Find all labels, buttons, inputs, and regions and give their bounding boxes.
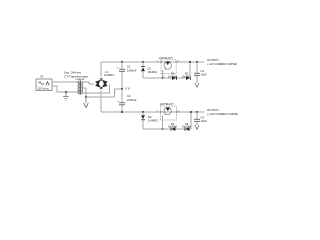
svg-text:CT-Transformator: CT-Transformator <box>64 74 88 78</box>
wire AC2 riser <box>108 84 110 93</box>
svg-text:1N4001: 1N4001 <box>148 70 158 74</box>
svg-text:1N4148: 1N4148 <box>182 126 191 129</box>
node D5 top <box>142 61 144 63</box>
svg-text:1N4148: 1N4148 <box>168 126 177 129</box>
ground (center tap) <box>85 96 87 98</box>
svg-text:10uF: 10uF <box>201 119 208 123</box>
svg-text:120 Vrms: 120 Vrms <box>37 86 49 90</box>
node D8 top <box>142 111 144 113</box>
wire positive rail <box>101 61 205 63</box>
svg-text:+: + <box>117 66 119 70</box>
ground arrow (C4) <box>195 125 199 130</box>
node 0V <box>121 88 123 90</box>
svg-text:1N4003: 1N4003 <box>104 73 114 77</box>
wire diode string top <box>143 77 190 79</box>
wire diode string riser <box>189 62 191 78</box>
wire regulator ground pin <box>161 77 163 79</box>
svg-text:10uF: 10uF <box>201 73 208 77</box>
capacitor C1 <box>121 62 123 89</box>
wire 0V <box>86 89 122 97</box>
svg-text:LM7912CT: LM7912CT <box>160 102 174 106</box>
capacitor C3 <box>196 62 198 83</box>
svg-text:0 V: 0 V <box>126 87 130 91</box>
bridge rectifier D1-D4 <box>95 78 108 89</box>
svg-text:1N4003: 1N4003 <box>148 119 158 123</box>
svg-text:+ 12V CURRENT-LIMITED: + 12V CURRENT-LIMITED <box>207 63 237 66</box>
ground arrow (C3) <box>195 83 199 88</box>
svg-text:(-) 12V CURRENT-LIMITED: (-) 12V CURRENT-LIMITED <box>207 113 238 116</box>
wire plug to transformer primary top <box>52 81 79 83</box>
diode D9 <box>171 127 175 131</box>
svg-text:+: + <box>117 99 119 103</box>
capacitor C4 <box>196 112 198 125</box>
node C2 bottom <box>121 111 123 113</box>
svg-text:LM7812CT: LM7812CT <box>159 56 173 60</box>
wire regulator U2 ground pin <box>161 128 163 130</box>
svg-text:OUTPUT: OUTPUT <box>207 58 219 62</box>
svg-text:1000uF: 1000uF <box>127 69 137 73</box>
wall plug V1 <box>36 79 52 91</box>
diode D7 <box>186 76 190 80</box>
svg-text:OUTPUT: OUTPUT <box>207 108 219 112</box>
wire diode string riser bottom <box>190 112 192 129</box>
capacitor C2 <box>121 89 123 112</box>
diode D6 <box>172 76 176 80</box>
svg-text:1000uF: 1000uF <box>127 98 137 102</box>
diode D8 <box>142 112 144 129</box>
wire DC minus riser <box>100 90 102 112</box>
ground (primary) <box>63 92 69 101</box>
svg-text:V1: V1 <box>40 75 44 79</box>
diode D5 <box>142 62 144 78</box>
node C1 top <box>121 61 123 63</box>
wire negative rail <box>101 111 205 113</box>
diode D10 <box>185 127 189 131</box>
junction primary neutral <box>65 91 67 93</box>
svg-text:1N4148: 1N4148 <box>168 75 177 78</box>
transformer T1 <box>78 81 110 98</box>
node C3 <box>196 61 198 63</box>
svg-text:TS-A4VA: TS-A4VA <box>75 78 84 81</box>
node C4 <box>196 111 198 113</box>
wire plug lower to primary bottom <box>52 86 79 92</box>
wire DC plus riser <box>100 62 102 77</box>
wire diode string bottom <box>143 128 191 130</box>
